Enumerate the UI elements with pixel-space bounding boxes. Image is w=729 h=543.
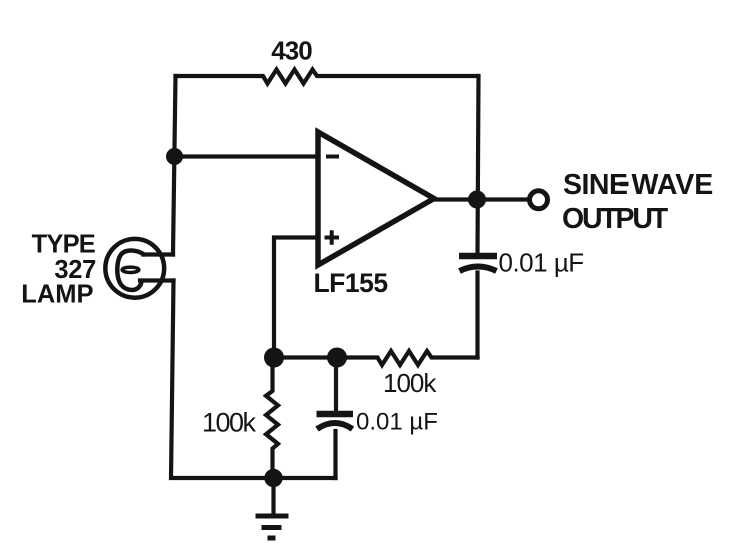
svg-text:430: 430	[271, 36, 312, 66]
svg-text:SINE: SINE	[563, 169, 628, 201]
svg-text:LAMP: LAMP	[21, 281, 93, 309]
svg-text:WAVE: WAVE	[632, 169, 714, 201]
svg-text:LF155: LF155	[314, 268, 388, 298]
svg-text:0.01 µF: 0.01 µF	[356, 409, 438, 436]
svg-text:0.01 µF: 0.01 µF	[499, 248, 584, 278]
svg-text:TYPE: TYPE	[32, 230, 96, 258]
svg-text:100k: 100k	[383, 368, 437, 398]
svg-text:OUTPUT: OUTPUT	[562, 203, 669, 235]
svg-text:100k: 100k	[202, 408, 257, 438]
